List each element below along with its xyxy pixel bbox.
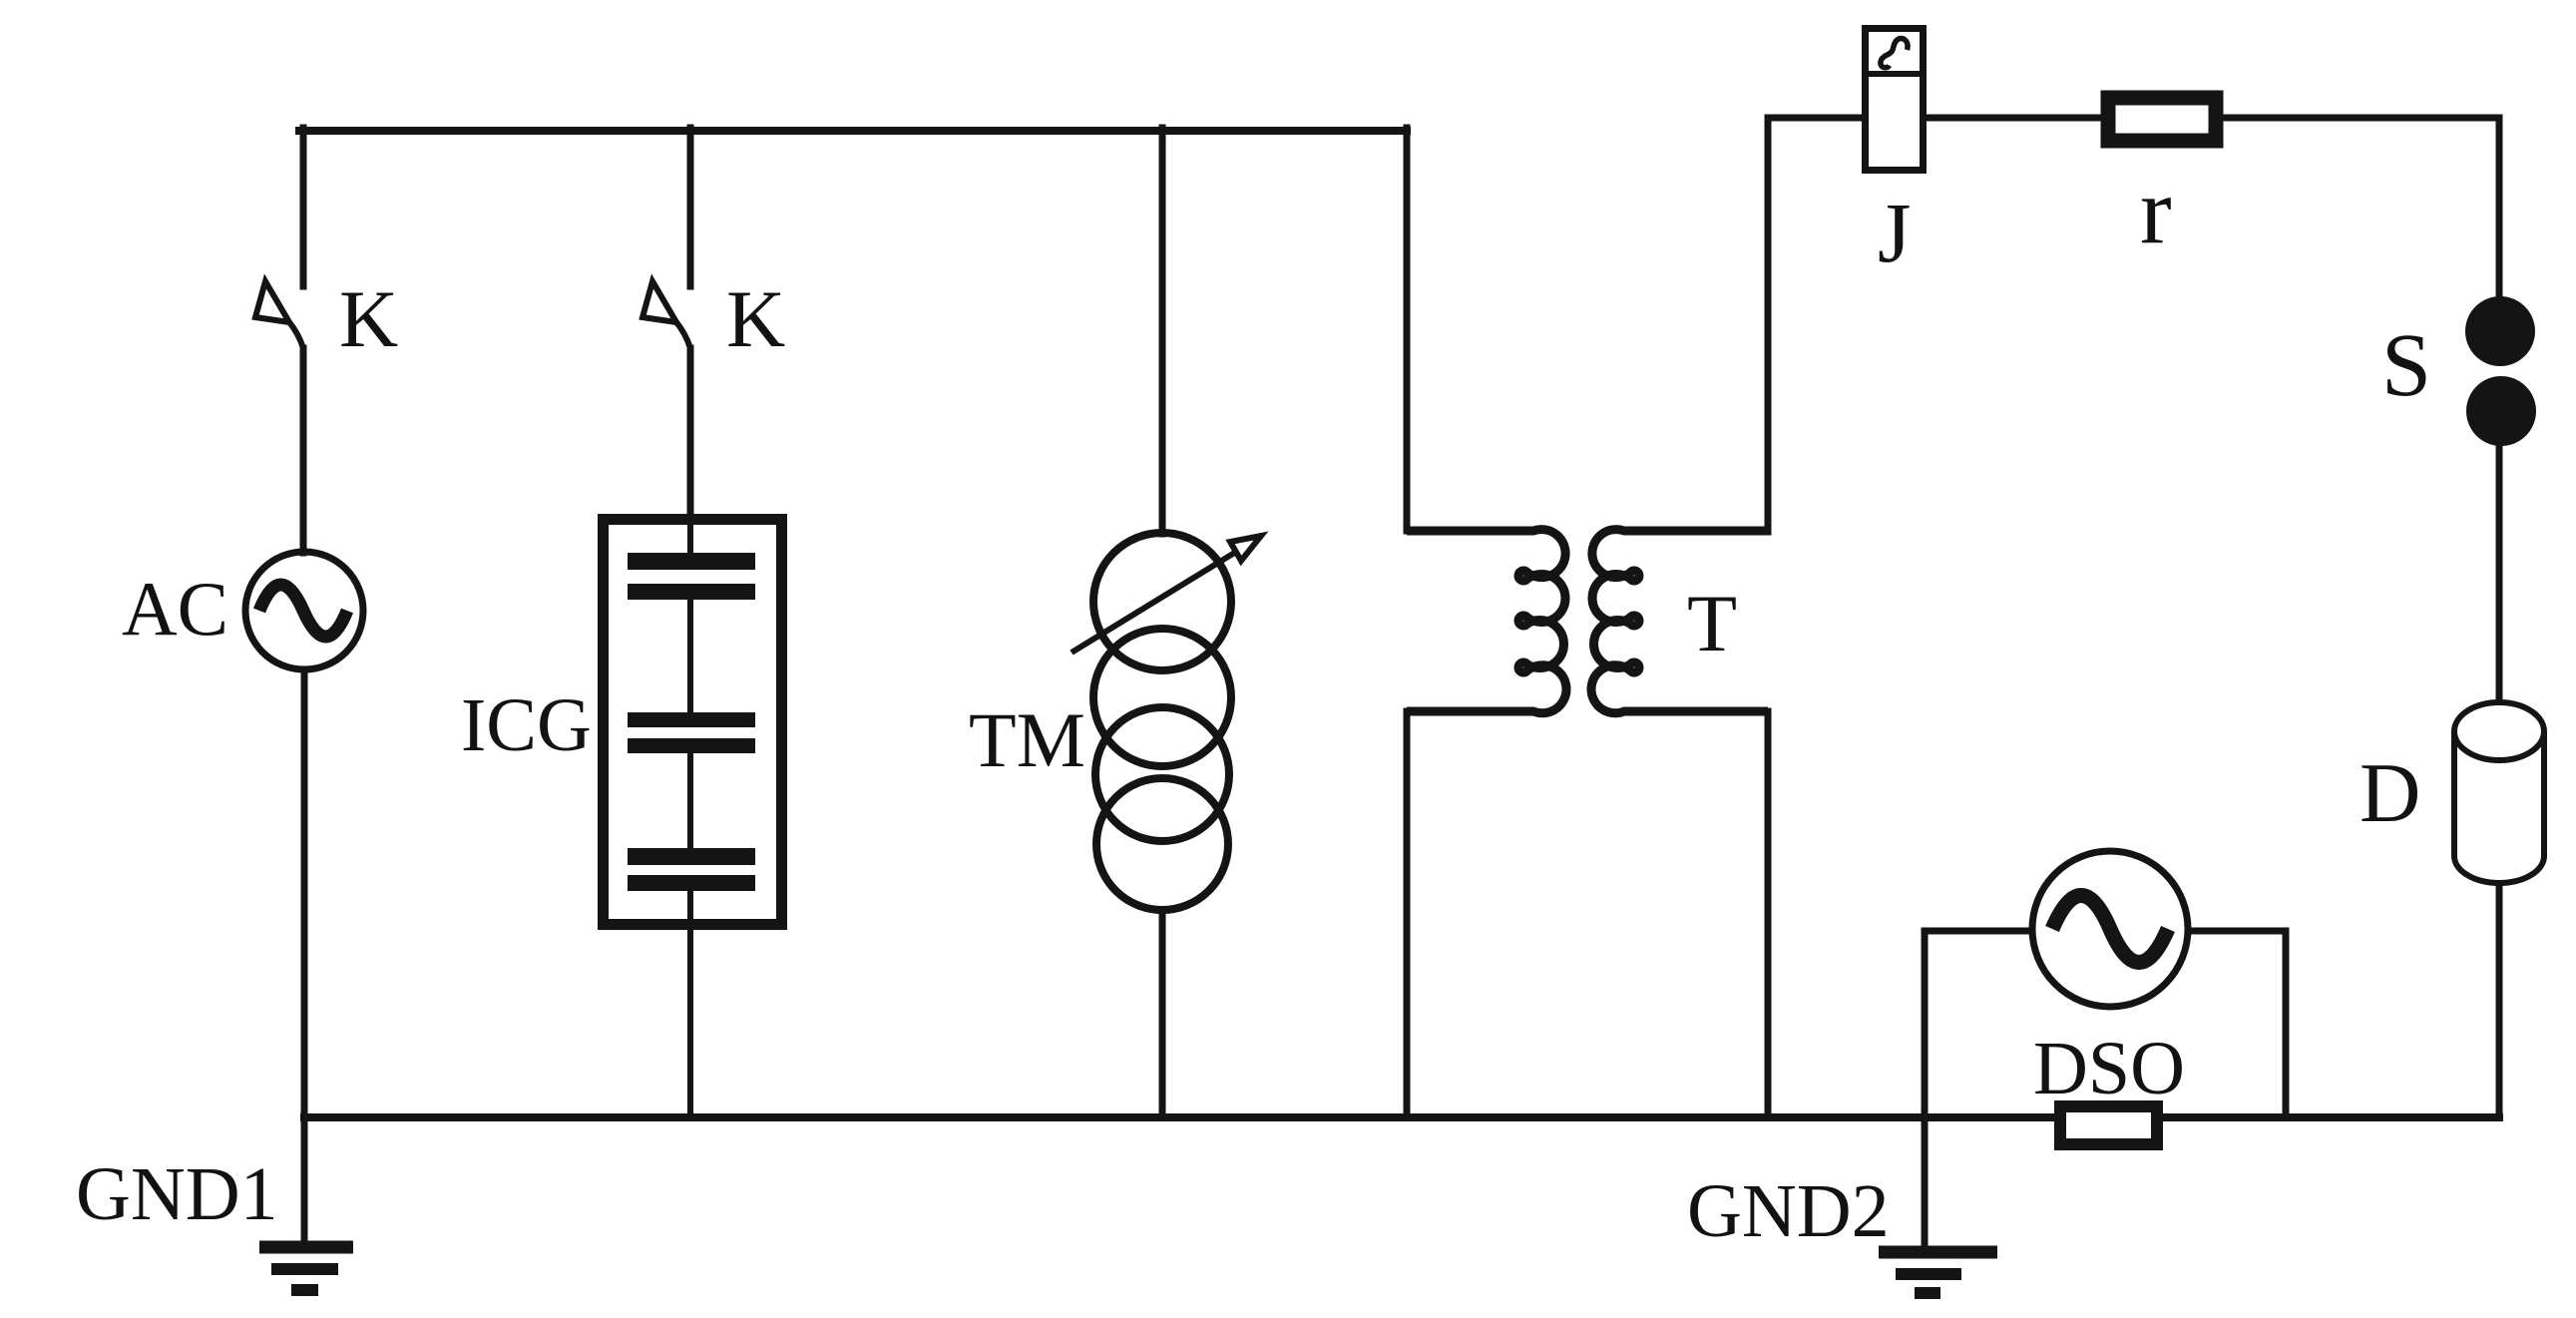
svg-text:K: K [339,273,398,364]
svg-text:K: K [726,273,785,364]
svg-text:T: T [1687,578,1737,668]
svg-text:DSO: DSO [2033,1027,2185,1110]
svg-text:TM: TM [969,696,1085,783]
svg-text:D: D [2360,746,2420,840]
svg-text:r: r [2140,158,2172,263]
svg-text:S: S [2381,316,2431,415]
svg-text:GND1: GND1 [76,1152,278,1236]
svg-text:ICG: ICG [461,683,592,767]
svg-text:AC: AC [122,566,228,652]
svg-text:GND2: GND2 [1687,1169,1890,1253]
svg-text:J: J [1878,185,1911,280]
